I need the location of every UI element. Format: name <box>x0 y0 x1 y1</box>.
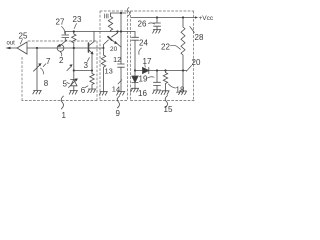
node signal/varactor branch <box>73 47 75 49</box>
transistor 20 emitter <box>112 40 116 43</box>
svg-text:5: 5 <box>63 80 68 89</box>
varactor arrow through cap to circle <box>60 40 67 46</box>
capacitor 26 <box>154 18 161 30</box>
leader squiggle 8 <box>41 68 44 74</box>
leader 3 <box>87 58 89 62</box>
svg-text:20: 20 <box>192 58 201 67</box>
ground 13 <box>99 92 107 96</box>
resistor 18 <box>163 71 167 91</box>
leader 14 <box>118 80 122 84</box>
leader 7 <box>43 64 46 67</box>
leader 6 <box>85 86 88 88</box>
node rail/crystal leg <box>120 30 122 32</box>
brace label 9 <box>117 96 119 108</box>
svg-text:20: 20 <box>110 46 118 53</box>
transistor 3 emitter <box>89 50 93 54</box>
leader squiggle 2 <box>60 52 62 56</box>
wire x73.8 down <box>73 48 75 71</box>
leader 5 <box>67 83 70 84</box>
resistor 22 <box>181 18 185 71</box>
node x92 y70.5 <box>91 69 93 71</box>
arrow 4 pointing at wire <box>67 67 71 71</box>
varactor circle 2 on signal line <box>57 45 64 52</box>
arrow 8 crossing wire <box>34 65 41 71</box>
crystal top wire <box>111 13 127 47</box>
svg-text:3: 3 <box>84 61 89 70</box>
varactor 5 arrow <box>69 80 77 88</box>
svg-text:25: 25 <box>19 32 28 41</box>
Vcc arrowhead <box>195 16 198 18</box>
brace label 1 <box>61 96 63 109</box>
svg-text:7: 7 <box>46 57 51 66</box>
svg-text:19: 19 <box>139 75 148 84</box>
node rail/collector <box>116 30 118 32</box>
node crystal top <box>120 12 122 14</box>
leader 23 <box>74 24 76 29</box>
svg-text:23: 23 <box>73 15 82 24</box>
leader 25 <box>20 40 22 45</box>
capacitor 19 <box>154 71 161 91</box>
svg-text:28: 28 <box>195 33 204 42</box>
dashed box 9 (crystal section) <box>100 11 128 101</box>
leader 17 <box>144 65 147 68</box>
leader 28 <box>190 27 195 33</box>
ground varactor 5 <box>69 91 77 95</box>
capacitor 27 <box>62 32 69 42</box>
node y70.5 x183 <box>182 69 184 71</box>
node cap 19 <box>156 69 158 71</box>
capacitor 12 <box>118 64 125 92</box>
wire vertical x37 down to ground <box>36 48 38 91</box>
leader 24 <box>139 48 142 55</box>
out terminal arrow <box>7 47 17 49</box>
Vcc rail <box>131 17 196 19</box>
transistor 20 (middle) collector <box>112 32 118 38</box>
transistor 20 base arm to signal line <box>104 40 109 48</box>
dashed box 1 (left oscillator section) <box>22 41 97 101</box>
dashed box 15 (compensation section) <box>131 11 195 101</box>
ground 12/14 <box>117 92 125 96</box>
svg-text:2: 2 <box>59 56 64 65</box>
resistor 6 <box>90 71 94 90</box>
transistor 3 base bar <box>88 43 90 52</box>
wire y70.5 diode line <box>135 70 187 72</box>
node cap 26 <box>156 16 158 18</box>
svg-text:15: 15 <box>164 105 173 114</box>
svg-text:out: out <box>7 41 16 47</box>
op-amp buffer 25 (triangle) <box>17 42 27 54</box>
svg-text:22: 22 <box>161 43 170 52</box>
leader 22 <box>171 45 181 49</box>
node signal line end <box>103 47 105 49</box>
wire y70.5 horizontal <box>74 70 92 72</box>
transistor 20 base bar <box>108 37 112 41</box>
svg-text:18: 18 <box>176 86 185 95</box>
node x73.8 y70.5 <box>73 69 75 71</box>
curl on top border <box>128 8 130 16</box>
ground x183 <box>179 91 187 95</box>
ground cap 26 <box>153 30 161 34</box>
resistor 13 <box>101 55 105 92</box>
svg-text:14: 14 <box>112 85 120 94</box>
crystal series resistor <box>108 13 112 32</box>
leader 18 <box>169 84 176 88</box>
wire rail y31 <box>65 31 135 33</box>
node resistor 18 <box>164 69 166 71</box>
ground cap 19 <box>153 90 161 94</box>
svg-text:26: 26 <box>138 20 147 29</box>
svg-text:13: 13 <box>105 67 113 76</box>
wire signal line y48 <box>27 47 104 49</box>
node x135 y70.5 <box>134 69 136 71</box>
varactor diode 5 <box>71 71 78 91</box>
svg-text:17: 17 <box>143 57 152 66</box>
wire rail corner down x135 <box>134 32 136 38</box>
transistor 3 collector <box>89 32 95 47</box>
capacitor 24 <box>132 37 139 70</box>
svg-text:16: 16 <box>138 89 147 98</box>
node resistor23 top <box>73 30 75 32</box>
leader 19 <box>148 77 155 78</box>
wire x183 down <box>182 71 184 92</box>
ground resistor 18 <box>161 91 169 95</box>
diode 16 (down) <box>132 76 138 83</box>
svg-text:9: 9 <box>116 109 121 118</box>
diode 17 <box>143 67 149 73</box>
resistor 23 <box>72 32 76 49</box>
svg-text:+Vcc: +Vcc <box>199 15 214 22</box>
svg-text:1: 1 <box>62 111 67 120</box>
svg-text:24: 24 <box>139 39 148 48</box>
wire right branch 12 <box>120 47 122 64</box>
ground diode 16 <box>131 88 139 92</box>
brace label 15 <box>165 96 167 108</box>
leader 26 <box>149 23 155 24</box>
wire left branch 13 <box>103 48 105 55</box>
svg-text:12: 12 <box>113 55 121 64</box>
node at x37 on signal line <box>36 47 38 49</box>
ground resistor 6 <box>88 89 96 93</box>
ground (left, box 1) <box>33 91 42 95</box>
leader 27 <box>62 27 65 34</box>
svg-text:27: 27 <box>56 18 65 27</box>
crystal label ticks 11 <box>105 14 109 18</box>
node resistor 22 top <box>182 16 184 18</box>
leader 20 <box>186 66 191 72</box>
svg-text:8: 8 <box>44 79 49 88</box>
